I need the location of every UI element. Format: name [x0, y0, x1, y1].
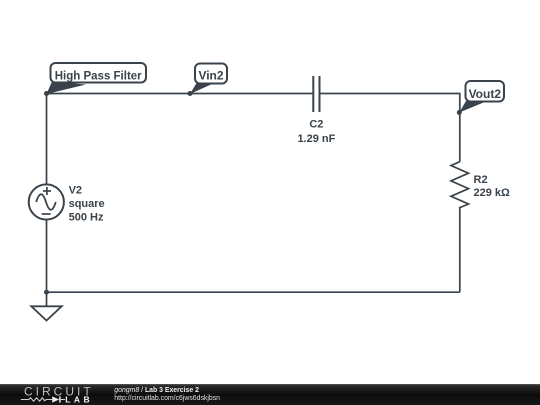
- wire top-right horizontal (C2 right plate to top-right corner): [320, 93, 460, 95]
- resistor R2: [451, 162, 469, 208]
- svg-text:Vin2: Vin2: [198, 69, 223, 83]
- svg-text:High Pass Filter: High Pass Filter: [55, 70, 142, 82]
- wire right vertical lower (R2 bottom to bottom-right corner): [459, 207, 461, 292]
- svg-text:gongm8 / Lab 3 Exercise 2: gongm8 / Lab 3 Exercise 2: [114, 387, 199, 394]
- svg-text:R2: R2: [474, 174, 488, 186]
- flag Vin2: [190, 64, 227, 95]
- svg-text:1.29 nF: 1.29 nF: [297, 133, 335, 145]
- svg-text:C2: C2: [309, 118, 323, 130]
- wire left vertical upper (node to V2 top): [46, 94, 48, 187]
- svg-text:229 kΩ: 229 kΩ: [474, 187, 511, 199]
- wire top-left horizontal (node to C2 left plate): [47, 93, 314, 95]
- label R2 value: [474, 174, 511, 199]
- svg-text:V2: V2: [69, 184, 82, 196]
- svg-text:square: square: [69, 198, 105, 210]
- label C2 value: [297, 118, 335, 145]
- svg-text:Vout2: Vout2: [469, 87, 502, 101]
- wire bottom horizontal: [47, 291, 460, 293]
- flag High Pass Filter: [47, 63, 147, 94]
- svg-text:LAB: LAB: [65, 395, 93, 405]
- svg-text:http://circuitlab.com/c6jws6ds: http://circuitlab.com/c6jws6dskjbsn: [114, 395, 220, 402]
- node Vout2 dot: [457, 110, 462, 115]
- footer bar: [0, 384, 540, 405]
- svg-text:500 Hz: 500 Hz: [69, 212, 104, 224]
- node High Pass Filter dot: [44, 91, 49, 96]
- footer title text: [114, 387, 220, 402]
- voltage source V2: [29, 184, 64, 219]
- node Vin2 dot: [188, 91, 193, 96]
- flag Vout2: [459, 81, 504, 113]
- junction dot ground node: [44, 290, 49, 295]
- label V2 value: [69, 184, 105, 223]
- capacitor C2: [313, 76, 319, 112]
- ground: [31, 292, 61, 320]
- wire right vertical upper (corner to R2 top): [459, 93, 461, 162]
- logo CircuitLab: [21, 384, 94, 404]
- wire left vertical lower (V2 bottom to ground junction): [46, 218, 48, 292]
